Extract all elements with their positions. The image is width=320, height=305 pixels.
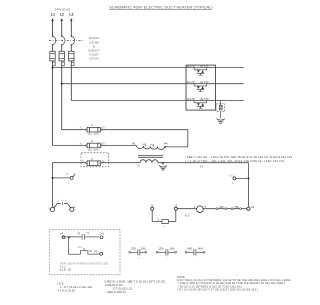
transformer secondary winding bbox=[140, 160, 158, 163]
junction dot right stub bbox=[248, 177, 250, 179]
wire L4 to contact bbox=[61, 236, 81, 238]
junction dot L1 tap bbox=[52, 67, 54, 69]
terminal 2 circle bbox=[174, 207, 177, 210]
jumper dashes bbox=[57, 200, 67, 201]
terminal 4 circle bbox=[70, 207, 74, 211]
right stub terminal circle bbox=[233, 177, 236, 180]
transformer taps H3 H2 bbox=[145, 144, 153, 147]
svg-text:(35): (35) bbox=[234, 205, 239, 209]
aux contact (23)/(24) bbox=[157, 249, 176, 255]
SCR power controller box U1 bbox=[186, 65, 216, 110]
fuse FU4 body bbox=[87, 127, 100, 132]
svg-text:CC : 07C :: CC : 07C : bbox=[88, 133, 100, 136]
wire right rail bbox=[248, 163, 250, 208]
svg-text:( - l 1 1D--E T1D1 -- 1E1- l-: ( - l 1 1D--E T1D1 -- 1E1- l- E11. TE1- … bbox=[185, 159, 285, 163]
CB gang dashed link bbox=[49, 40, 84, 42]
link component in dip bbox=[162, 220, 168, 224]
wire ground stem bbox=[162, 163, 164, 165]
contact 76/77 bbox=[82, 234, 84, 240]
svg-text:(36): (36) bbox=[219, 205, 224, 209]
svg-text:l(: l( bbox=[83, 160, 85, 163]
terminal X2 circle bbox=[247, 207, 250, 210]
svg-text:,F,: ,F, bbox=[162, 227, 165, 229]
terminal TK circle bbox=[70, 176, 73, 179]
svg-text:A 1-E1l 1D 1E: A 1-E1l 1D 1E bbox=[58, 289, 76, 293]
legend center bbox=[104, 279, 166, 294]
wire X1 run left bbox=[53, 162, 141, 164]
transformer T1 primary winding bbox=[136, 146, 164, 150]
terminal L4 bbox=[62, 236, 65, 239]
wire X2 run right bbox=[158, 162, 249, 164]
terminal 1 circle bbox=[50, 207, 54, 211]
svg-text:Re,e,: Re,e, bbox=[78, 247, 84, 249]
snubber dashed box bbox=[216, 104, 225, 112]
wire L2 vertical upper bbox=[61, 21, 63, 36]
fuse FU3 (power) bbox=[69, 51, 74, 61]
svg-text:(2) 1T1: (2) 1T1 bbox=[200, 64, 209, 68]
svg-text:L3: L3 bbox=[69, 13, 73, 17]
legend small text left bbox=[58, 282, 93, 293]
ground (SCR box) bbox=[216, 119, 225, 124]
svg-text:3 PH 60 HZ: 3 PH 60 HZ bbox=[55, 8, 71, 12]
svg-text:(23): (23) bbox=[159, 247, 164, 251]
svg-text:H4: H4 bbox=[164, 141, 168, 145]
terminal 6 circle bbox=[151, 207, 154, 210]
wire contact to terminal E bbox=[85, 236, 99, 238]
circuit breaker CB pole 3 bbox=[71, 35, 75, 45]
inline terminals (36)(35) bbox=[216, 208, 218, 210]
wire left stub bbox=[53, 177, 71, 179]
wire left rail bbox=[52, 163, 54, 208]
wire dip up bbox=[168, 210, 176, 221]
svg-text:3(: 3( bbox=[80, 127, 82, 130]
circuit breaker CB pole 1 bbox=[52, 35, 56, 45]
wire remote lower row bbox=[69, 253, 81, 255]
wire L2 vertical below fuse bbox=[61, 61, 63, 130]
wire to coil bbox=[178, 208, 197, 210]
terminal lug 1 bbox=[53, 62, 56, 65]
svg-text:L2: L2 bbox=[60, 13, 64, 17]
control fuse dashed box bbox=[81, 153, 109, 167]
svg-text:O-F (3): O-F (3) bbox=[89, 57, 98, 61]
svg-text:(FOR USE W TH REMOTE MOUNT1l ,: (FOR USE W TH REMOTE MOUNT1l ,DE1 bbox=[60, 262, 109, 265]
junction dot left stub bbox=[52, 177, 54, 179]
wire right stub bbox=[236, 177, 249, 179]
wire phase run 3 bbox=[71, 100, 243, 102]
svg-text:(34): (34) bbox=[141, 247, 146, 251]
supply arrow L1 bbox=[51, 18, 54, 21]
wire L3 vertical below fuse bbox=[70, 61, 72, 101]
lower terminal bbox=[100, 252, 103, 255]
jumper bridge bbox=[54, 202, 71, 208]
title underline bbox=[109, 9, 211, 11]
junction dot X2 ground tap bbox=[162, 162, 164, 164]
junction dot L2 tap bbox=[61, 83, 63, 85]
wire L3 vertical upper bbox=[70, 21, 72, 36]
svg-text:,FLT: ,FLT bbox=[184, 213, 190, 217]
svg-text:(X): (X) bbox=[101, 127, 104, 130]
wire L2 to fuse FU4 bbox=[62, 129, 86, 131]
SCR pair 3 labels bbox=[187, 97, 209, 101]
wire dip down bbox=[152, 210, 162, 221]
svg-text:2L3 (5): 2L3 (5) bbox=[187, 97, 195, 101]
svg-text:TK: TK bbox=[66, 173, 69, 176]
pushbutton bump bbox=[80, 251, 88, 255]
fuse FU4 terminals bbox=[86, 129, 88, 131]
optional remote control dashed box bbox=[50, 230, 121, 275]
wire L1 vertical upper bbox=[52, 21, 54, 36]
wire L1 vertical to fuse bbox=[52, 45, 54, 51]
svg-text:l 1F l 1O 1O DD 1El 1E1T--1T 1: l 1F l 1O 1O DD 1El 1E1T--1T 1lE 1l E1T1… bbox=[177, 287, 259, 291]
svg-text:(2H): (2H) bbox=[100, 233, 105, 236]
aux contact (33)/(34) bbox=[130, 249, 146, 255]
CB note text block bbox=[88, 36, 100, 61]
fuse FU1 (power) bbox=[50, 51, 55, 61]
svg-text:2L1 (1): 2L1 (1) bbox=[187, 64, 195, 68]
wire L1 to fuse FU5 bbox=[53, 145, 86, 147]
circuit breaker CB pole 2 bbox=[61, 35, 65, 45]
aux contact (43)/(44) bbox=[186, 249, 204, 255]
terminal lug 2 bbox=[62, 62, 65, 65]
svg-text:(4) 1T2: (4) 1T2 bbox=[200, 80, 209, 84]
svg-text:ALE-1E: ALE-1E bbox=[60, 267, 72, 271]
terminal lug 3 bbox=[71, 62, 74, 65]
wire phase run 2 bbox=[62, 83, 244, 85]
svg-text:(X): (X) bbox=[101, 142, 104, 145]
svg-text:(33): (33) bbox=[131, 247, 136, 251]
snubber element R/C bbox=[219, 105, 222, 110]
svg-text:CC : 07C :: CC : 07C : bbox=[88, 149, 100, 152]
svg-text:3(: 3( bbox=[80, 142, 82, 145]
relay coil FLT bbox=[197, 206, 204, 213]
transformer note text bbox=[185, 155, 293, 163]
supply arrow L2 bbox=[60, 18, 63, 21]
junction dot remote bbox=[68, 236, 70, 238]
svg-text:SCHEMATIC 460V ELECTRIC DUCT: SCHEMATIC 460V ELECTRIC DUCT HEATER (TYP… bbox=[109, 4, 213, 9]
node H4 dot bbox=[164, 146, 166, 148]
svg-text:H1: H1 bbox=[132, 141, 136, 145]
svg-text:(24): (24) bbox=[170, 247, 175, 251]
supply arrow L3 bbox=[70, 18, 73, 21]
svg-text:(44): (44) bbox=[198, 247, 203, 251]
svg-text:X2: X2 bbox=[200, 165, 204, 169]
fuse FU5 body bbox=[87, 143, 100, 148]
wire snubber drop bbox=[220, 101, 222, 105]
svg-text:(2l): (2l) bbox=[94, 250, 98, 253]
wire phase run 1 bbox=[53, 67, 244, 69]
fuse FU2 (power) bbox=[59, 51, 64, 61]
svg-text:L1: L1 bbox=[51, 13, 55, 17]
terminal E bbox=[100, 236, 103, 239]
SCR pair 1 labels bbox=[187, 64, 209, 68]
svg-text:2L2 (3): 2L2 (3) bbox=[187, 80, 195, 84]
wire remote vertical bbox=[68, 237, 70, 254]
wire L3 vertical to fuse bbox=[70, 45, 72, 51]
svg-text:(6) 1T3: (6) 1T3 bbox=[200, 97, 209, 101]
transformer core bbox=[138, 156, 163, 158]
fuse FU6 (control) bbox=[87, 160, 100, 165]
ground (transformer X2) bbox=[159, 166, 167, 171]
wire FU4 to H4 (u-turn) bbox=[102, 130, 188, 147]
wire to ground bbox=[220, 112, 222, 119]
fuse FU5 terminals bbox=[86, 145, 88, 147]
wire L2 vertical to fuse bbox=[61, 45, 63, 51]
wire L1 vertical below fuse bbox=[52, 61, 54, 145]
switch arm bbox=[73, 174, 76, 177]
wire coil to X2 bbox=[203, 208, 246, 210]
notes block bbox=[177, 275, 291, 292]
SCR pair 2 labels bbox=[187, 80, 209, 84]
SCR pair 2 (back-to-back thyristors) bbox=[194, 84, 207, 92]
svg-text:---FIELD 1DD 11: ---FIELD 1DD 11 bbox=[105, 290, 126, 294]
wire FU5 to H1 bbox=[102, 145, 137, 147]
svg-text:X2: X2 bbox=[251, 205, 255, 209]
svg-text:A,(2): A,(2) bbox=[229, 174, 234, 177]
svg-text:(43): (43) bbox=[187, 247, 192, 251]
wire to lower terminal bbox=[88, 253, 100, 255]
SCR pair 1 (back-to-back thyristors) bbox=[194, 68, 207, 76]
SCR pair 3 (back-to-back thyristors) bbox=[194, 101, 207, 109]
